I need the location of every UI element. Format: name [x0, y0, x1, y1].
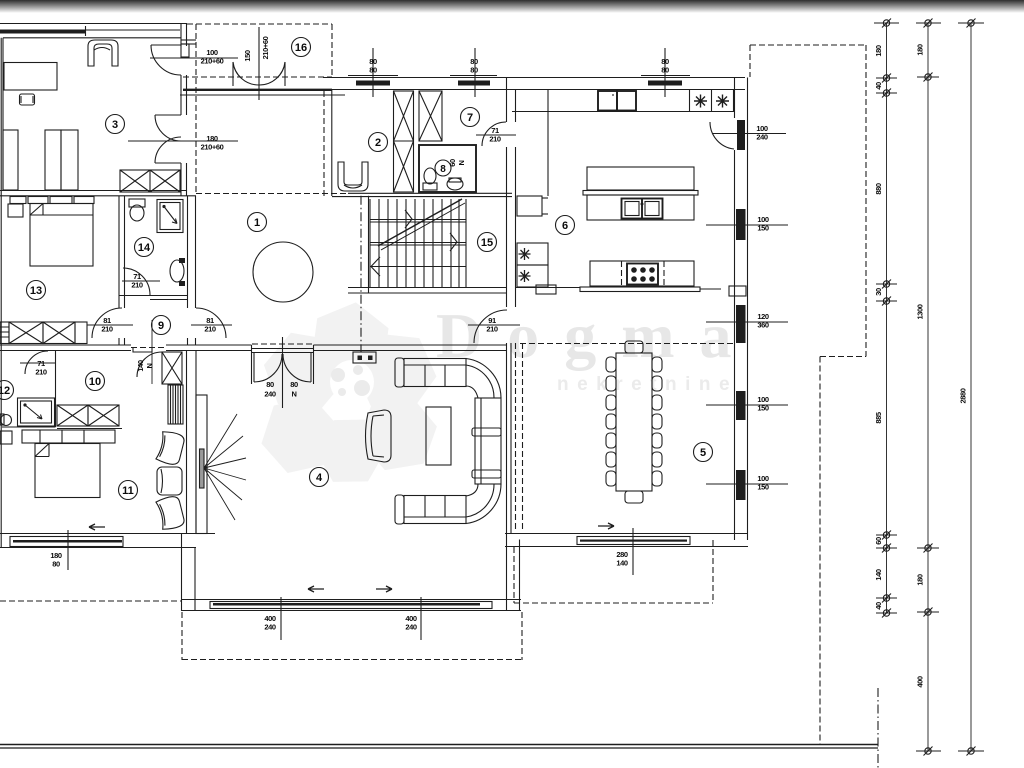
svg-text:N: N	[145, 363, 154, 368]
vent box room4 top	[353, 352, 376, 363]
svg-text:2880: 2880	[959, 388, 968, 403]
step box hall9	[133, 347, 152, 352]
door room14	[123, 268, 150, 295]
chairs right	[652, 357, 662, 372]
radiator + rays room11	[200, 449, 205, 488]
stairs mid rails	[370, 219, 466, 221]
armchair room11 a	[156, 430, 186, 466]
kitchen sink top	[598, 91, 617, 111]
chairs left	[606, 357, 616, 372]
dash-dot boundary room1/stairs	[360, 196, 362, 352]
dim line B	[927, 23, 929, 751]
wall column right of room11	[186, 351, 188, 534]
svg-text:8: 8	[440, 164, 446, 175]
dim line A	[886, 23, 888, 613]
label 2	[369, 133, 388, 152]
svg-text:40: 40	[874, 602, 883, 610]
svg-text:180: 180	[916, 574, 925, 586]
chair room2	[338, 162, 368, 191]
bathroom8 walls	[419, 145, 476, 192]
svg-text:80: 80	[470, 66, 478, 75]
svg-text:180: 180	[874, 45, 883, 57]
shelf row room10	[22, 430, 115, 443]
svg-text:180: 180	[916, 44, 925, 56]
room4 window band	[210, 602, 492, 609]
svg-text:13: 13	[30, 285, 42, 297]
small door + shaft at hall9 bottom	[137, 352, 162, 377]
toilet room14	[129, 199, 145, 207]
svg-text:12: 12	[0, 385, 10, 397]
svg-text:9: 9	[158, 320, 164, 332]
wardrobe room10	[57, 405, 88, 426]
svg-text:140: 140	[616, 559, 628, 568]
right terrace dashed outline	[750, 44, 866, 46]
bed room13	[30, 204, 93, 267]
wardrobe room13	[0, 322, 9, 344]
nightstand room10	[0, 431, 12, 444]
wall room7/kitchen (vertical)	[506, 78, 508, 123]
entry porch left dashed edge	[195, 24, 197, 193]
svg-text:240: 240	[756, 133, 768, 142]
dim line C	[970, 23, 972, 751]
bed room13 headboard	[10, 197, 26, 204]
svg-text:3: 3	[112, 119, 118, 131]
sofa corner bottom-right	[466, 484, 501, 524]
hob cells + stars	[689, 90, 691, 112]
stairs top wall	[348, 192, 512, 194]
coffee table room4	[426, 407, 451, 465]
nightstand room13	[8, 204, 23, 217]
room4 bottom wall	[182, 599, 522, 601]
wall: room3 top thick band	[0, 30, 86, 34]
svg-text:140: 140	[136, 360, 145, 372]
sofa right column	[475, 398, 501, 484]
armchair room3	[88, 40, 118, 66]
door hall9 left	[92, 308, 122, 338]
svg-text:210: 210	[489, 135, 501, 144]
wall room13/14 vertical	[118, 196, 120, 308]
stairs treads	[370, 199, 466, 287]
svg-text:210: 210	[204, 325, 216, 334]
label 15	[478, 233, 497, 252]
room11 bottom wall	[0, 533, 215, 535]
wall room14 bottom	[119, 295, 187, 297]
window W2 top	[458, 81, 490, 86]
watermark flower logo	[250, 297, 449, 497]
svg-text:80: 80	[266, 380, 274, 389]
svg-text:885: 885	[874, 412, 883, 424]
svg-text:1: 1	[254, 217, 260, 229]
svg-text:80: 80	[369, 66, 377, 75]
shower room12	[18, 398, 55, 426]
svg-text:150: 150	[757, 404, 769, 413]
label 3	[106, 115, 125, 134]
chair room3	[20, 94, 35, 105]
svg-text:150: 150	[243, 50, 252, 62]
desk room3	[4, 63, 57, 91]
door room3 lower (into room3)	[155, 115, 181, 141]
svg-text:80: 80	[661, 66, 669, 75]
chair bottom	[625, 491, 643, 503]
svg-text:240: 240	[405, 623, 417, 632]
shower room14	[157, 200, 183, 233]
washing machine room12	[1, 415, 12, 426]
wardrobe X room2 col2	[419, 91, 442, 141]
svg-text:210: 210	[131, 281, 143, 290]
room16 dashed outline	[187, 23, 332, 25]
label 7	[461, 108, 480, 127]
svg-text:60: 60	[448, 159, 457, 167]
label 13	[27, 281, 46, 300]
svg-text:5: 5	[700, 447, 706, 459]
door room7	[482, 122, 506, 146]
svg-text:N: N	[291, 390, 296, 399]
svg-text:30: 30	[874, 288, 883, 296]
ticks A	[874, 19, 899, 618]
sink room14	[170, 260, 184, 282]
arrow dining window	[598, 523, 614, 529]
room2 left boundary: dashed + solid	[323, 91, 325, 196]
room4 left wall	[181, 534, 183, 612]
room4 right wall lower	[506, 533, 508, 611]
arrow room11 window	[89, 524, 105, 530]
rug room11	[168, 385, 183, 424]
svg-text:400: 400	[916, 676, 925, 688]
label 11	[119, 481, 138, 500]
svg-text:210: 210	[101, 325, 113, 334]
svg-text:N: N	[457, 160, 466, 165]
island B	[590, 261, 694, 286]
label 12	[0, 381, 14, 400]
stairs left wall	[368, 196, 370, 293]
door room3 upper (into room3)	[151, 45, 181, 75]
room1 dashed top boundary	[196, 193, 348, 195]
island A	[587, 167, 694, 190]
dining terrace dashed outline	[513, 547, 515, 603]
label 8	[435, 160, 451, 176]
stairs diagonal	[378, 199, 462, 246]
window W3 top (kitchen)	[648, 81, 682, 86]
chair top	[625, 341, 643, 353]
window W1 top	[356, 81, 390, 86]
svg-text:10: 10	[89, 376, 101, 388]
fridge cells with stars	[517, 243, 548, 265]
armchair room4	[366, 410, 392, 462]
armchair room11 b (middle)	[157, 467, 182, 495]
dining table	[616, 353, 652, 491]
wall: room3 top inner	[3, 37, 181, 39]
svg-text:240: 240	[264, 623, 276, 632]
door hall to dining	[474, 310, 507, 343]
top wall rooms 2/7/kitchen	[323, 77, 745, 79]
wall: room3 top outer	[0, 23, 187, 25]
svg-text:880: 880	[874, 183, 883, 195]
svg-text:140: 140	[874, 569, 883, 581]
kitchen counter top band	[512, 111, 734, 113]
window R3	[736, 391, 746, 420]
svg-text:6: 6	[562, 220, 568, 232]
svg-text:210+60: 210+60	[261, 36, 270, 59]
wall room1 left vertical	[187, 196, 189, 308]
svg-text:14: 14	[138, 242, 151, 254]
svg-text:360: 360	[757, 321, 769, 330]
entry double door arcs	[233, 62, 259, 85]
sink8	[447, 178, 463, 190]
armchair room11 c	[156, 495, 186, 531]
ground line bottom	[0, 744, 878, 746]
svg-text:4: 4	[316, 472, 323, 484]
dining bottom wall	[505, 533, 748, 535]
window R1	[736, 209, 746, 240]
svg-text:210+60: 210+60	[201, 143, 224, 152]
svg-text:16: 16	[295, 42, 307, 54]
svg-text:150: 150	[757, 224, 769, 233]
bed room10/11	[35, 444, 100, 498]
shaft X room3	[120, 170, 180, 192]
wall: between room3 and room13	[0, 190, 187, 192]
svg-text:Dogma: Dogma	[436, 300, 757, 371]
door hall9 right into room1	[196, 308, 226, 338]
window R4	[736, 470, 746, 500]
round table room1	[253, 242, 313, 302]
svg-text:80: 80	[52, 560, 60, 569]
sofa corner top-right	[466, 359, 501, 399]
section dash-dot line bottom right	[877, 688, 879, 768]
svg-text:210: 210	[35, 368, 47, 377]
stairs bottom wall	[348, 287, 506, 289]
svg-text:80: 80	[290, 380, 298, 389]
kitchen tall cabinets right of wall	[547, 90, 549, 196]
wardrobe X room2 col1	[394, 91, 414, 192]
svg-text:2: 2	[375, 137, 381, 149]
svg-text:nekretnine: nekretnine	[557, 374, 738, 395]
sofa bottom	[404, 496, 466, 524]
terrace dashed below room4	[181, 612, 183, 660]
wall: room3 right, low segment	[180, 163, 182, 196]
label 14	[135, 238, 154, 257]
arrows room4 windows	[308, 586, 324, 592]
wall: room3 right, upper segment	[180, 24, 182, 47]
dashed open-plan boundary below kitchen	[515, 343, 517, 530]
top gradient band	[0, 0, 1024, 13]
svg-text:60: 60	[874, 537, 883, 545]
sofa top	[395, 358, 404, 387]
svg-text:150: 150	[757, 483, 769, 492]
room11 window	[10, 537, 123, 547]
svg-text:240: 240	[264, 390, 276, 399]
door room12	[25, 351, 48, 374]
svg-text:210: 210	[486, 325, 498, 334]
wall: left outer	[0, 38, 2, 548]
door kitchen right	[737, 120, 745, 150]
kitchen low counter edge	[516, 287, 580, 289]
svg-text:7: 7	[467, 112, 473, 124]
svg-text:40: 40	[874, 82, 883, 90]
window R2	[736, 305, 746, 343]
wall: room3 right, mid segment	[180, 75, 182, 115]
svg-text:1300: 1300	[916, 304, 925, 319]
svg-text:15: 15	[481, 237, 493, 249]
stairs arrows	[405, 210, 412, 228]
svg-text:11: 11	[122, 485, 134, 497]
wardrobe room3	[3, 130, 18, 190]
toilet8	[423, 183, 437, 190]
entry wall below porch	[183, 89, 332, 91]
